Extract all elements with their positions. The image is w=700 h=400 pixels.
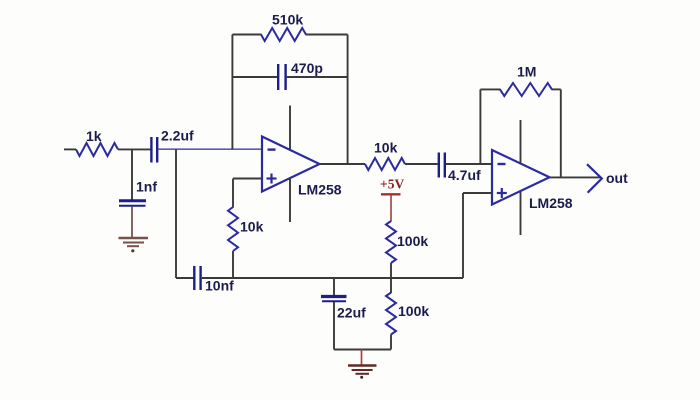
wire 1M row left: [480, 88, 500, 90]
wire U1 V+ pin: [289, 106, 291, 150]
wire 10k to bottom rail: [232, 251, 234, 278]
capacitor 1nf: [119, 201, 146, 206]
wire 1M right vertical: [560, 89, 562, 177]
resistor 1k: [76, 143, 118, 156]
wire 1nf to ground: [131, 207, 133, 238]
wire bottom rail to 100k lower: [390, 278, 392, 293]
wire node down to bottom rail: [175, 149, 177, 278]
wire U1 + input left: [233, 178, 262, 180]
svg-text:510k: 510k: [272, 12, 303, 28]
wire input stub: [64, 148, 76, 150]
wire node down to 1nf: [131, 149, 133, 199]
svg-text:1nf: 1nf: [136, 179, 157, 195]
svg-text:out: out: [606, 170, 628, 186]
wire 1M row right: [552, 88, 561, 90]
wire bottom wire 2: [334, 349, 391, 351]
svg-text:10nf: 10nf: [205, 278, 234, 294]
resistor 10k (series): [365, 158, 405, 170]
op-amp U1 LM258: [262, 137, 320, 192]
wire 2.2uf to op-amp U1 inverting input (blue): [159, 148, 263, 150]
wire 22uf to bottom wire 2: [333, 302, 335, 350]
capacitor 4.7uf: [439, 153, 445, 178]
op-amp U2 LM258: [492, 150, 550, 205]
svg-text:10k: 10k: [374, 140, 398, 156]
wire U2 output: [550, 176, 601, 178]
svg-text:4.7uf: 4.7uf: [448, 167, 481, 183]
wire 470p row left: [232, 76, 277, 78]
capacitor 10nf: [194, 266, 200, 290]
resistor 100k (upper): [386, 221, 396, 263]
wire 10k to 4.7uf: [405, 163, 438, 165]
capacitor 22uf: [321, 297, 347, 302]
resistor 10k (vertical): [228, 207, 238, 251]
wire U1 + input down to 10k: [232, 179, 234, 208]
wire bottom rail down to 22uf: [333, 278, 335, 296]
wire feedback left vertical: [231, 35, 233, 150]
ground (center, bottom): [348, 366, 377, 379]
wire 100k to bottom rail: [390, 263, 392, 278]
+5V supply: [380, 177, 404, 222]
wire 1M left vertical: [479, 89, 481, 164]
wire 510k row right: [306, 34, 348, 36]
svg-text:22uf: 22uf: [337, 305, 366, 321]
wire 100k lower to bottom wire 2: [390, 335, 392, 350]
wire 1k to node: [118, 148, 151, 150]
wire 4.7uf to U2 inverting input: [446, 163, 492, 165]
resistor 510k: [261, 28, 306, 41]
svg-text:2.2uf: 2.2uf: [161, 128, 194, 144]
wire U2 V+ pin: [520, 120, 522, 164]
out arrow: [587, 164, 602, 193]
resistor 1M: [500, 83, 552, 96]
svg-text:LM258: LM258: [298, 182, 342, 198]
wire 510k row left: [232, 34, 261, 36]
wire feedback right vertical: [347, 35, 349, 165]
resistor 100k (lower): [386, 293, 396, 335]
svg-text:10k: 10k: [240, 219, 264, 235]
wire 470p row right: [287, 76, 348, 78]
wire bottom rail right: [202, 277, 463, 279]
wire U2 V- pin: [520, 191, 522, 235]
wire bottom rail left: [176, 277, 194, 279]
capacitor 470p: [278, 64, 285, 90]
svg-text:1M: 1M: [517, 64, 536, 80]
capacitor 2.2uf: [151, 137, 157, 163]
svg-text:1k: 1k: [86, 128, 102, 144]
svg-text:470p: 470p: [291, 60, 323, 76]
svg-text:100k: 100k: [397, 233, 428, 249]
svg-text:100k: 100k: [398, 303, 429, 319]
svg-text:LM258: LM258: [529, 195, 573, 211]
ground (left, under 1nf): [119, 238, 149, 252]
wire ground stem (center): [361, 350, 363, 366]
wire U2 + input down to bottom rail: [462, 193, 464, 278]
wire U2 + input left: [463, 192, 492, 194]
wire U1 V- pin: [289, 178, 291, 222]
svg-text:+5V: +5V: [380, 177, 404, 192]
wire U1 output: [320, 163, 366, 165]
